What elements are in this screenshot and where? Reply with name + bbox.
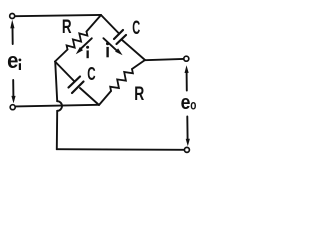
terminal TL [10, 14, 15, 19]
resistor R1 arm lead lower (left vertex to zigzag) [55, 50, 68, 62]
resistor R2 arm lead upper (zigzag to right vertex) [132, 60, 145, 69]
label i2 [106, 42, 109, 57]
wire from hop down to bottom rail [56, 111, 58, 149]
resistor R1 zigzag [67, 32, 88, 50]
terminal BR [184, 147, 189, 152]
svg-text:R: R [62, 16, 72, 38]
wire bottom (to BR terminal) [57, 148, 184, 151]
voltage arrow ei upper (arrowhead up + stem) [10, 20, 14, 44]
capacitor C2 arm lead lower (plates to bottom vertex) [80, 88, 99, 105]
current arrow i2 (pointing down-right along C1 arm) [103, 38, 122, 55]
terminal BL [10, 105, 15, 110]
wire top (input top rail to bridge apex) [16, 15, 101, 16]
svg-text:R: R [134, 83, 144, 105]
wire right (right vertex to TR terminal) [145, 59, 183, 60]
svg-text:C: C [132, 18, 140, 39]
resistor R2 arm lead lower (bottom vertex to zigzag) [99, 91, 111, 105]
voltage arrow ei lower (stem + arrowhead down) [11, 80, 15, 103]
capacitor C1 arm lead lower (plates to right vertex) [122, 40, 146, 61]
label i1 [86, 46, 89, 58]
label ei [7, 48, 21, 73]
capacitor C1 plate 2 [117, 35, 127, 44]
svg-text:o: o [190, 97, 196, 113]
resistor R2 zigzag [110, 69, 133, 91]
terminal TR [184, 56, 189, 61]
svg-text:C: C [87, 64, 95, 84]
capacitor C2 arm lead upper (left vertex to plates) [55, 62, 75, 82]
resistor R1 arm lead upper (zigzag to apex) [87, 15, 102, 32]
capacitor C2 plate 1 [69, 77, 81, 88]
voltage arrow eo lower (stem + arrowhead down) [186, 117, 190, 147]
capacitor C1 plate 1 [114, 30, 123, 39]
wire from left vertex down (upper segment) [55, 62, 57, 102]
capacitor C1 arm lead upper (apex to plates) [101, 15, 119, 33]
label eo [181, 91, 197, 113]
svg-text:e: e [7, 48, 18, 73]
wire bottom-left (BL terminal to bottom vertex) [16, 105, 98, 107]
current arrow i1 (pointing down-left along R1 arm) [76, 38, 92, 54]
capacitor C2 plate 2 [72, 82, 84, 94]
voltage arrow eo upper (arrowhead up + stem) [185, 65, 189, 90]
wire hop (crossover over bottom-left wire, no connection) [57, 101, 62, 111]
svg-text:e: e [181, 91, 191, 113]
